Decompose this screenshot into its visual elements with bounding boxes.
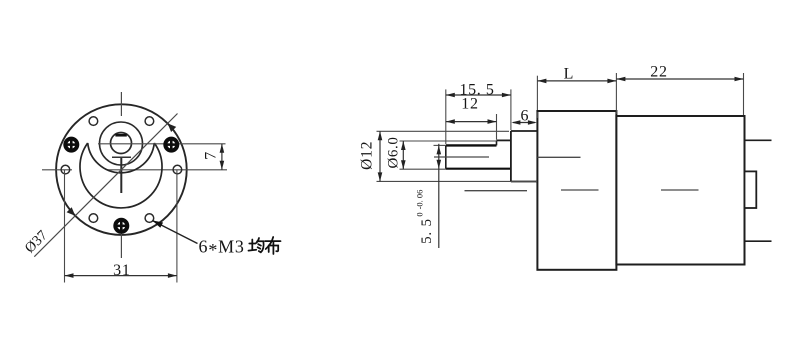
svg-text:L: L — [564, 66, 574, 83]
svg-text:Ø6.0: Ø6.0 — [385, 137, 401, 169]
dim 12 line — [446, 119, 497, 124]
motor axis centerline segment 1 — [465, 190, 528, 192]
svg-text:22: 22 — [650, 63, 668, 80]
dim 5.5 text with tolerance — [414, 190, 435, 244]
horizontal centerline (main segment, extends to 7-dim) — [107, 169, 227, 171]
shaft tip vertical edge — [445, 145, 447, 168]
motor axis centerline segment 3 (inside motor) — [661, 189, 699, 191]
shaft bottom edge (bold) — [446, 168, 511, 170]
center tick below hub — [112, 156, 131, 158]
M3 hole at 180deg — [61, 165, 70, 174]
dia37 dimension line (diagonal through center) — [34, 114, 177, 257]
M3 hole at 0deg — [173, 165, 182, 174]
motor axis centerline segment 2 (inside gearbox) — [561, 189, 599, 191]
dim 12 extension line right — [496, 114, 498, 140]
dia6 dimension line — [401, 141, 406, 169]
dimension 31 extension line left — [64, 170, 66, 283]
svg-text:-0. 06: -0. 06 — [414, 190, 424, 210]
hub boss circle (Ø12) — [100, 122, 143, 165]
assembly screw upper-left — [65, 139, 77, 151]
shaft flat top edge (bold) — [446, 144, 497, 146]
vertical centerline (middle segment) — [120, 158, 122, 193]
dim 15.5 extension line left — [445, 89, 447, 144]
flange outer circle — [56, 104, 187, 235]
dia12 extension line top — [377, 130, 510, 132]
gearbox body rectangle — [537, 111, 616, 270]
svg-text:31: 31 — [113, 262, 131, 279]
svg-text:Ø12: Ø12 — [359, 141, 376, 170]
shaft axis horizontal line (extends to 7-dim) — [98, 143, 226, 145]
svg-text:6*M3: 6*M3 — [199, 237, 245, 261]
dim L line — [537, 79, 616, 84]
motor body rectangle — [616, 116, 744, 265]
dia6 extension line bottom — [400, 168, 446, 170]
M3 hole at 240deg — [89, 214, 98, 223]
glyph jun — [249, 238, 264, 252]
dia6 extension line top — [400, 140, 497, 142]
svg-text:5. 5: 5. 5 — [419, 218, 435, 244]
dim 5.5 dimension line with arrows — [437, 144, 442, 248]
dim 6 (hub width) arrows outward — [511, 120, 537, 125]
vertical centerline (bottom segment) — [120, 222, 122, 258]
assembly screw bottom — [115, 220, 127, 232]
svg-text:0: 0 — [414, 212, 424, 216]
vertical centerline (top segment) — [120, 92, 122, 116]
shaft circle (Ø6) — [111, 133, 132, 154]
dim L / 22 shared extension line — [615, 73, 617, 114]
dim 22 line — [616, 77, 743, 82]
motor terminal bottom — [745, 240, 772, 242]
M3 hole at 60deg — [145, 117, 154, 126]
assembly screw upper-right — [165, 139, 177, 151]
svg-text:12: 12 — [461, 95, 479, 112]
crescent inner arc — [88, 143, 155, 173]
shaft axis centerline segment 2 (inside gearbox) — [537, 156, 580, 158]
dim L extension line left — [536, 76, 538, 110]
shaft step vertical — [496, 140, 498, 145]
dim 5.5 extension line (flat top) — [434, 144, 446, 146]
svg-text:7: 7 — [203, 152, 220, 160]
dia12 extension line bottom — [377, 180, 538, 182]
motor terminal top — [745, 139, 772, 141]
label 6*M3 (with hand-drawn CJK glyphs jun bu) — [199, 237, 281, 261]
glyph bu — [265, 237, 281, 254]
shaft flat chord (bold) — [115, 134, 126, 137]
horizontal centerline (left segment through left hole) — [42, 169, 72, 171]
dimension 31 extension line right — [176, 170, 178, 283]
dim 22 extension line right — [743, 73, 745, 115]
dia12 dimension line — [378, 131, 383, 181]
dimension 7 line — [220, 144, 225, 170]
dim 6 extension above gearbox edge — [536, 112, 538, 118]
hub boss bottom edge — [511, 181, 538, 183]
dim 15.5 / 6 extension line at hub face — [510, 89, 512, 130]
hub boss top edge — [511, 130, 538, 132]
motor end cap bump — [745, 171, 757, 208]
shaft axis centerline segment 1 — [434, 156, 489, 158]
svg-text:6: 6 — [521, 107, 529, 124]
M3 hole at 300deg (leader target) — [145, 214, 154, 223]
shaft full-diameter top edge — [497, 139, 511, 141]
crescent outer arc — [80, 143, 162, 208]
M3 hole at 120deg — [89, 117, 98, 126]
leader line to M3 hole — [152, 220, 197, 243]
dim 15.5 line — [446, 93, 511, 98]
hub boss front face vertical — [510, 131, 512, 182]
dimension 31 line — [65, 273, 177, 278]
